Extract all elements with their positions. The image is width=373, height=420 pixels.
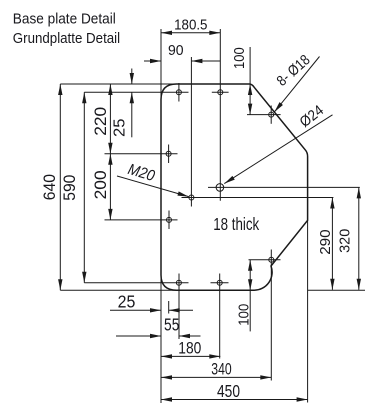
dim 450 line xyxy=(161,399,308,401)
hole H4 xyxy=(167,217,172,222)
hole H3 xyxy=(166,151,171,156)
leader 8-O18 xyxy=(274,57,319,113)
arrow 25TL down xyxy=(130,73,134,84)
arrow 100BR up xyxy=(248,260,252,271)
dim 320 line xyxy=(358,187,360,289)
wire ext row y=219.9 xyxy=(105,219,178,221)
svg-text:25: 25 xyxy=(118,291,136,311)
svg-text:340: 340 xyxy=(211,360,231,378)
wire ext right column x=220.3 top xyxy=(219,29,221,201)
node hole H4 arm xyxy=(168,211,170,230)
wire ext top edge left y=84 xyxy=(60,83,180,85)
wire ext bottom edge right y=290.2 xyxy=(308,289,365,291)
plate outline xyxy=(161,84,308,290)
dim 180 line xyxy=(161,355,220,357)
svg-text:640: 640 xyxy=(41,174,59,200)
arrow 590 up xyxy=(82,92,86,103)
hole H2 xyxy=(218,90,223,95)
arrow 340 left xyxy=(161,375,172,379)
dim 55 line xyxy=(116,335,161,337)
arrow 220 down xyxy=(108,143,112,154)
dim 340 line xyxy=(161,376,271,378)
node hole H3 arm xyxy=(168,145,170,164)
svg-text:55: 55 xyxy=(164,315,179,335)
wire ext left-edge column x=161 xyxy=(160,29,162,403)
svg-text:200: 200 xyxy=(92,170,110,199)
wire ext M20 column x=191.4 xyxy=(190,57,192,207)
wire ext bottom hole row y=282.8 xyxy=(84,282,188,284)
hole H10 xyxy=(217,280,222,285)
arrow 200 up xyxy=(108,154,112,165)
arrow 90 right xyxy=(191,59,202,63)
svg-text:25: 25 xyxy=(112,119,129,138)
svg-text:Base plate Detail: Base plate Detail xyxy=(13,12,116,28)
svg-text:Grundplatte Detail: Grundplatte Detail xyxy=(13,31,120,47)
dim 100BR line xyxy=(249,260,251,332)
arrow 340 right xyxy=(260,375,271,379)
wire ext right edge x=307.6 below plate xyxy=(307,220,309,402)
hole H5 M20 xyxy=(189,195,194,200)
dim 640 line xyxy=(59,84,61,290)
wire ext right column x=219.7 bottom xyxy=(219,274,221,359)
svg-text:18 thick: 18 thick xyxy=(213,214,259,234)
dim 100TR line xyxy=(249,47,251,115)
arrow 640 up xyxy=(58,84,62,95)
svg-text:290: 290 xyxy=(318,229,334,254)
arrow 290 down xyxy=(330,279,334,290)
arrow 320 down xyxy=(357,279,361,290)
svg-text:590: 590 xyxy=(61,175,79,201)
arrow 220 up xyxy=(108,84,112,95)
dim 25TL line xyxy=(131,69,133,85)
arrow 100TR up xyxy=(248,84,252,95)
arrow 640 down xyxy=(58,279,62,290)
node hole H10 arm xyxy=(211,282,229,284)
wire ext hole column x=179 bottom xyxy=(178,274,180,340)
hole H8 xyxy=(269,257,274,262)
hole H1 xyxy=(176,90,181,95)
arrow 55 right xyxy=(150,334,161,338)
wire ext hole column x=168.7 bottom xyxy=(168,301,170,314)
arrow 100BR down xyxy=(248,279,252,290)
arrow O24 leader xyxy=(224,176,234,184)
arrow 55 left xyxy=(179,334,190,338)
svg-text:450: 450 xyxy=(217,381,240,401)
svg-text:180.5: 180.5 xyxy=(174,18,207,34)
wire ext top hole row y=92.3 xyxy=(84,91,188,93)
arrow M20 leader xyxy=(177,191,188,196)
arrow 180 left xyxy=(161,354,172,358)
arrow 450 right xyxy=(297,397,308,401)
svg-text:320: 320 xyxy=(337,229,353,253)
hole H6 O24 xyxy=(216,184,224,192)
arrow 8-O18 leader xyxy=(274,102,283,112)
node hole H1 centerline xyxy=(178,83,180,102)
arrow 320 up xyxy=(357,187,361,198)
wire ext O24 row y=187.4 xyxy=(208,186,360,188)
arrow 100TR down xyxy=(248,104,252,115)
arrow 180.5 left xyxy=(161,31,172,35)
arrow 450 left xyxy=(161,397,172,401)
hole H7 xyxy=(269,112,274,117)
svg-text:220: 220 xyxy=(92,107,110,136)
dim 90 line xyxy=(144,60,161,62)
arrow 290 up xyxy=(330,198,334,209)
leader O24 xyxy=(224,115,332,184)
arrow 90 left xyxy=(150,59,161,63)
wire ext 8-O18 hole row y=114.6 xyxy=(247,114,281,116)
dim 590 line xyxy=(83,92,85,282)
wire ext M20 row y=197.5 xyxy=(182,197,334,199)
arrow 590 down xyxy=(82,272,86,283)
svg-text:180: 180 xyxy=(178,338,201,357)
wire ext chamfer hole row y=259.7 xyxy=(249,259,281,261)
dim 25b line xyxy=(110,309,161,311)
dim 220 line xyxy=(109,84,111,154)
arrow 25b left xyxy=(169,308,180,312)
dim 290 line xyxy=(331,198,333,290)
svg-text:100: 100 xyxy=(236,304,252,326)
wire ext row y=153.7 xyxy=(105,153,178,155)
hole H9 xyxy=(176,280,181,285)
arrow 25b right xyxy=(150,308,161,312)
arrow 180.5 right xyxy=(209,31,220,35)
leader M20 xyxy=(117,176,189,197)
node hole H2 arm xyxy=(212,91,229,93)
wire ext chamfer-hole column x=271.3 xyxy=(270,250,272,381)
dim 200 line xyxy=(109,154,111,220)
wire ext bottom edge left y=290.2 xyxy=(60,289,180,291)
svg-text:90: 90 xyxy=(168,43,184,59)
arrow 25TL up xyxy=(130,92,134,103)
svg-text:100: 100 xyxy=(232,47,248,69)
arrow 200 down xyxy=(108,209,112,220)
arrow 180 right xyxy=(209,354,220,358)
node hole H7 arm xyxy=(270,106,272,124)
dim 180.5 line xyxy=(161,32,220,34)
